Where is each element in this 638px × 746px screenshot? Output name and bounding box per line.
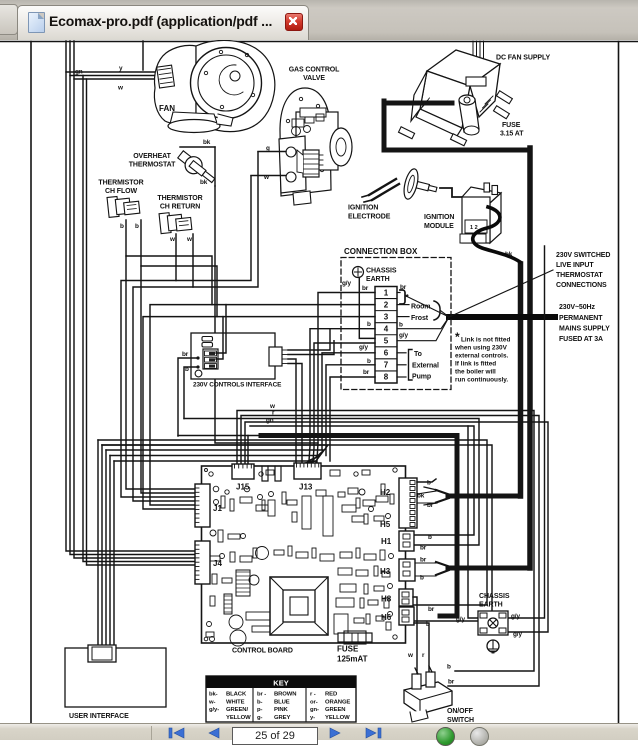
- svg-text:br -: br -: [257, 692, 266, 698]
- thick wire: permanent mains supply entry: [449, 314, 555, 320]
- svg-text:GREY: GREY: [274, 715, 290, 721]
- 230V controls interface box: [191, 333, 288, 379]
- svg-text:w-: w-: [208, 699, 215, 705]
- svg-text:CHASSIS: CHASSIS: [479, 593, 510, 600]
- svg-text:CHASSIS: CHASSIS: [366, 268, 397, 275]
- svg-text:CONNECTIONS: CONNECTIONS: [556, 282, 607, 289]
- chassis earth symbol in connection box: [353, 267, 364, 278]
- control board outline: [202, 466, 406, 643]
- wire band L6 to H6 b: [102, 445, 492, 621]
- svg-text:J15: J15: [236, 483, 250, 492]
- label 230V SWITCHED LIVE INPUT THERMOSTAT CONNECTIONS: [556, 252, 610, 289]
- svg-text:w: w: [407, 652, 413, 659]
- svg-text:1: 1: [384, 288, 389, 297]
- svg-text:8: 8: [384, 373, 389, 382]
- wire band L6 to J13: [102, 445, 328, 464]
- svg-text:r -: r -: [310, 692, 316, 698]
- svg-text:PINK: PINK: [274, 707, 289, 713]
- svg-text:the boiler will: the boiler will: [455, 369, 496, 376]
- svg-text:230V SWITCHED: 230V SWITCHED: [556, 252, 610, 259]
- thick wire: module bk S-loop to bar1: [473, 207, 520, 262]
- board edge notch: [262, 466, 281, 481]
- svg-text:THERMISTOR: THERMISTOR: [157, 195, 202, 202]
- svg-text:bk: bk: [505, 251, 513, 258]
- connector J15: [232, 464, 254, 479]
- svg-text:external controls.: external controls.: [455, 353, 508, 360]
- wire valve g lead: [258, 151, 286, 153]
- svg-text:H8: H8: [381, 595, 392, 604]
- connection box terminal strip 1-8: [375, 287, 397, 384]
- wire H6 r to switch: [414, 623, 429, 674]
- svg-text:RED: RED: [325, 692, 337, 698]
- svg-text:g/y: g/y: [359, 344, 368, 351]
- browser tab bar: [0, 0, 638, 41]
- thick wire: live feed down to H6: [261, 436, 457, 617]
- svg-text:w: w: [186, 236, 192, 243]
- fan (blower assembly): [154, 40, 274, 132]
- gas control valve: [279, 88, 352, 205]
- svg-text:BLUE: BLUE: [274, 699, 290, 705]
- wire w1 riser to valve: [176, 176, 251, 281]
- svg-text:b: b: [427, 480, 431, 487]
- svg-text:J13: J13: [299, 483, 313, 492]
- svg-text:b: b: [135, 223, 139, 230]
- wire terminal 4 to J13: [309, 329, 375, 464]
- svg-text:SWITCH: SWITCH: [447, 717, 474, 723]
- connector H3: [399, 559, 415, 581]
- svg-text:IGNITION: IGNITION: [424, 214, 454, 221]
- svg-text:CONNECTION BOX: CONNECTION BOX: [344, 247, 418, 256]
- connector H1: [399, 531, 414, 551]
- wire corridor branch b1 to J1: [126, 256, 196, 489]
- svg-text:y-: y-: [310, 715, 315, 721]
- svg-text:b: b: [120, 223, 124, 230]
- svg-text:br: br: [420, 545, 427, 552]
- svg-text:br: br: [362, 285, 369, 292]
- svg-text:br: br: [363, 369, 370, 376]
- wire terminal 7 drop: [326, 365, 375, 456]
- svg-text:g/y: g/y: [342, 280, 351, 287]
- wire terminal 3 to J1: [143, 317, 375, 509]
- svg-text:GREEN/: GREEN/: [226, 707, 248, 713]
- svg-text:FUSE: FUSE: [337, 645, 359, 654]
- svg-text:FUSE: FUSE: [502, 122, 521, 129]
- page frame right edge: [618, 42, 620, 724]
- wires terminals 6,7,8 to external pump bracket: [397, 352, 406, 354]
- svg-text:or-: or-: [310, 699, 318, 705]
- svg-text:OVERHEAT: OVERHEAT: [133, 153, 171, 160]
- user interface box: [65, 645, 166, 707]
- wire thermistor return w2 to valve g: [133, 234, 196, 501]
- svg-text:run continuously.: run continuously.: [455, 377, 508, 384]
- svg-text:Link is not fitted: Link is not fitted: [461, 337, 510, 344]
- page frame left edge: [30, 42, 32, 724]
- wire gn to chassis earth: [245, 422, 548, 632]
- connector J4: [195, 541, 210, 584]
- svg-text:w: w: [117, 85, 123, 92]
- wire right corridor to H1 and chassis earth: [184, 419, 479, 619]
- svg-text:230V CONTROLS INTERFACE: 230V CONTROLS INTERFACE: [193, 382, 282, 389]
- svg-text:bk: bk: [200, 179, 208, 186]
- svg-text:ELECTRODE: ELECTRODE: [348, 214, 391, 221]
- svg-text:2: 2: [384, 300, 389, 309]
- svg-text:b-: b-: [257, 699, 262, 705]
- wire band L9 to J13: [114, 461, 316, 464]
- wires terminals 2,3 to room/frost: [397, 304, 409, 306]
- svg-text:THERMISTOR: THERMISTOR: [98, 180, 143, 187]
- key table entries: [208, 692, 350, 721]
- wire terminal 5 to J13: [313, 343, 375, 464]
- svg-text:Frost: Frost: [411, 315, 429, 322]
- wire chassis earth riser to bottom earth block: [508, 246, 545, 618]
- thick wire: mains vertical bar2 to H3: [448, 148, 530, 568]
- wires H2 pins: [417, 479, 436, 503]
- svg-text:g-: g-: [257, 715, 262, 721]
- svg-text:g/y: g/y: [456, 616, 465, 623]
- svg-text:YELLOW: YELLOW: [325, 715, 350, 721]
- chassis earth block: [478, 611, 508, 635]
- svg-text:gn: gn: [75, 69, 83, 76]
- svg-text:g/y-: g/y-: [209, 707, 219, 713]
- svg-text:THERMOSTAT: THERMOSTAT: [129, 162, 176, 169]
- svg-text:DC FAN SUPPLY: DC FAN SUPPLY: [496, 55, 550, 62]
- svg-text:b: b: [420, 575, 424, 582]
- svg-text:6: 6: [384, 349, 389, 358]
- svg-text:5: 5: [384, 337, 389, 346]
- thermistor CH FLOW: [107, 194, 140, 217]
- wire J15 tap 4: [247, 436, 249, 465]
- svg-text:1 2: 1 2: [470, 225, 478, 231]
- pointer line to 230V switched text: [449, 270, 553, 317]
- control board components: [204, 468, 397, 646]
- wire valve w lead: [251, 175, 286, 177]
- svg-text:bk-: bk-: [209, 692, 218, 698]
- svg-text:w: w: [169, 236, 175, 243]
- svg-text:3: 3: [384, 312, 389, 321]
- pdf viewer status bar: [0, 723, 638, 740]
- chassis earth ground symbol: [487, 640, 499, 653]
- svg-text:b: b: [447, 664, 451, 671]
- wire interface risers: [216, 305, 226, 359]
- wire gn/y/w bundle from top to fan connector: [66, 41, 160, 79]
- svg-text:BLACK: BLACK: [226, 692, 247, 698]
- svg-text:USER INTERFACE: USER INTERFACE: [69, 713, 129, 720]
- svg-text:Pump: Pump: [412, 374, 431, 381]
- wire thermistor flow b1 staircase: [126, 220, 212, 305]
- wire terminal 6 drop: [322, 353, 375, 450]
- on/off switch: [404, 666, 452, 722]
- svg-text:VALVE: VALVE: [303, 75, 325, 82]
- svg-text:PERMANENT: PERMANENT: [559, 315, 603, 322]
- label 230V-50Hz PERMANENT MAINS SUPPLY FUSED AT 3A: [559, 304, 610, 343]
- svg-text:125mAT: 125mAT: [337, 655, 368, 664]
- wire electrode to ignition module: [440, 188, 462, 197]
- svg-text:p-: p-: [257, 707, 262, 713]
- svg-text:FUSED AT 3A: FUSED AT 3A: [559, 336, 603, 343]
- wire w2 riser to valve: [193, 152, 258, 287]
- link (terminal 1-2) with star: [397, 290, 410, 304]
- key table: [206, 676, 356, 722]
- svg-text:WHITE: WHITE: [226, 699, 245, 705]
- svg-text:MAINS SUPPLY: MAINS SUPPLY: [559, 326, 610, 333]
- wire r to on/off switch br: [241, 416, 539, 687]
- dc fan supply transformer: [398, 50, 512, 146]
- svg-text:br: br: [448, 679, 455, 686]
- wire interface br down to live feed: [178, 358, 198, 436]
- connector H6: [399, 607, 414, 625]
- big chip (concentric squares): [270, 577, 328, 635]
- svg-text:EARTH: EARTH: [366, 276, 390, 283]
- wire thermistor return w1 to valve w: [121, 234, 196, 497]
- connection box dashed outline: [341, 258, 451, 390]
- crimp fan at H3: [436, 562, 449, 575]
- svg-text:230V~50Hz: 230V~50Hz: [559, 304, 595, 311]
- svg-text:when using 230V: when using 230V: [454, 345, 508, 352]
- ignition electrode: [362, 168, 440, 206]
- svg-text:4: 4: [384, 324, 389, 333]
- svg-text:br: br: [182, 351, 189, 358]
- note: link is not fitted: [454, 330, 510, 384]
- wire band L7 to J13: [106, 450, 324, 464]
- wire dc fan supply feeds from top: [473, 41, 484, 74]
- connector H8: [399, 589, 413, 606]
- svg-text:GAS CONTROL: GAS CONTROL: [289, 67, 340, 74]
- overheat thermostat: [175, 147, 219, 187]
- fuse 125mAT on board: [338, 631, 372, 644]
- wire terminal 2 to J1: [150, 305, 375, 505]
- crimp fan at H2: [424, 487, 449, 505]
- ignition module: [460, 183, 501, 243]
- svg-text:g/y: g/y: [513, 631, 522, 638]
- svg-text:y: y: [119, 65, 123, 72]
- external pump bracket: [409, 350, 413, 381]
- wire user interface bundle: [98, 440, 114, 650]
- svg-text:FAN: FAN: [159, 104, 175, 113]
- page frame top edge: [0, 41, 638, 43]
- thermistor CH RETURN: [159, 210, 192, 233]
- svg-text:YELLOW: YELLOW: [226, 715, 251, 721]
- svg-text:J4: J4: [213, 559, 222, 568]
- svg-text:IGNITION: IGNITION: [348, 205, 378, 212]
- svg-text:To: To: [414, 351, 422, 358]
- thick wire: ignition bk bar1 to H2: [448, 264, 521, 496]
- wire H8 w to switch: [413, 597, 417, 676]
- wire band L5 to H8 br: [98, 440, 487, 605]
- wire terminal 8 drop: [330, 377, 375, 461]
- wire fan bk lead: [143, 41, 215, 147]
- svg-text:r: r: [422, 652, 425, 659]
- connector H2/H5: [399, 478, 417, 528]
- svg-text:gn: gn: [266, 417, 274, 424]
- svg-text:H1: H1: [381, 537, 392, 546]
- svg-text:3.15 AT: 3.15 AT: [500, 131, 524, 138]
- wire interface b down to corridor: [184, 367, 198, 419]
- svg-text:b: b: [367, 321, 371, 328]
- wire terminal 5 chassis g/y drop: [359, 278, 375, 339]
- thick wire: dc fan supply to mains run: [384, 101, 530, 150]
- svg-text:gn-: gn-: [310, 707, 319, 713]
- connector J13: [294, 463, 321, 479]
- wire w to on/off switch b: [237, 411, 534, 672]
- wire corridor branch b2 to J1: [141, 266, 196, 493]
- svg-text:MODULE: MODULE: [424, 223, 454, 230]
- wire terminal 1 to J13: [317, 293, 375, 465]
- svg-text:bk: bk: [417, 493, 425, 500]
- wire thermistor flow b2 staircase: [141, 220, 217, 317]
- wire band L8 to J13: [110, 456, 320, 465]
- wire thin lead into thick live feed: [178, 435, 262, 437]
- svg-text:CH FLOW: CH FLOW: [105, 188, 137, 195]
- wire thermostat bk down: [215, 186, 318, 443]
- svg-text:BROWN: BROWN: [274, 692, 296, 698]
- svg-text:b: b: [428, 534, 432, 541]
- svg-text:br: br: [420, 557, 427, 564]
- svg-text:ON/OFF: ON/OFF: [447, 708, 474, 715]
- wire interface stubs up to room stat lines: [288, 329, 334, 355]
- svg-text:br: br: [427, 502, 434, 509]
- svg-text:THERMOSTAT: THERMOSTAT: [556, 272, 603, 279]
- svg-text:7: 7: [384, 361, 389, 370]
- wires H3 pins: [415, 562, 436, 564]
- svg-text:b: b: [367, 358, 371, 365]
- svg-text:br: br: [428, 606, 435, 613]
- room/frost bracket: [434, 301, 440, 320]
- svg-text:CONTROL BOARD: CONTROL BOARD: [232, 648, 293, 655]
- wire left bundle going down to J4: [66, 72, 196, 565]
- svg-text:KEY: KEY: [273, 679, 288, 688]
- svg-text:bk: bk: [203, 139, 211, 146]
- svg-text:ORANGE: ORANGE: [325, 699, 350, 705]
- svg-text:*: *: [455, 330, 460, 344]
- fuse 3.15AT cylinder: [459, 95, 479, 135]
- svg-text:GREEN: GREEN: [325, 707, 345, 713]
- svg-text:CH RETURN: CH RETURN: [160, 204, 200, 211]
- svg-text:EARTH: EARTH: [479, 602, 503, 609]
- svg-text:g/y: g/y: [511, 613, 520, 620]
- connector J1: [195, 484, 210, 527]
- svg-text:If link is fitted: If link is fitted: [455, 361, 496, 368]
- wire diagonals at mains entry point: [397, 270, 553, 341]
- svg-text:g/y: g/y: [399, 332, 408, 339]
- svg-text:b: b: [399, 322, 403, 329]
- wire J13 extra feeders from interface: [288, 359, 302, 464]
- svg-text:External: External: [412, 363, 439, 370]
- svg-text:LIVE INPUT: LIVE INPUT: [556, 262, 594, 269]
